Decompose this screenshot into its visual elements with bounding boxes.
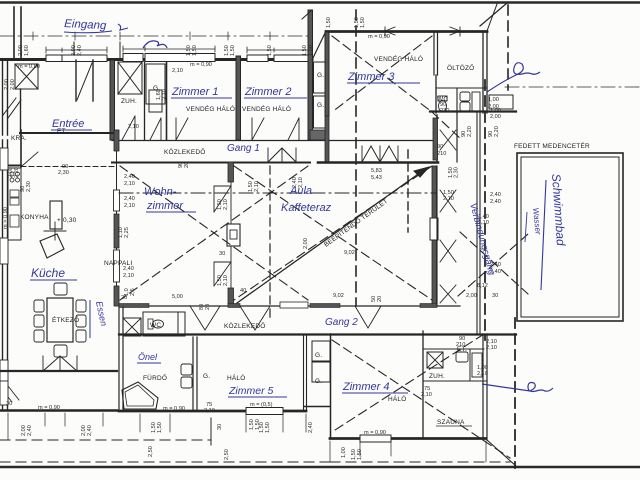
wc block walls: [436, 87, 487, 89]
svg-text:30: 30: [219, 251, 225, 257]
svg-text:Zimmer 1: Zimmer 1: [171, 86, 218, 98]
svg-text:G.: G.: [203, 373, 210, 380]
svg-text:WC: WC: [150, 322, 161, 329]
door swings corridor row: [122, 116, 135, 140]
chairs: [34, 300, 44, 312]
dim 80/20: [199, 304, 211, 310]
closets column x312-330: [312, 341, 330, 361]
svg-text:KÖZLEKEDŐ: KÖZLEKEDŐ: [164, 147, 206, 156]
svg-text:1,50: 1,50: [192, 45, 198, 56]
svg-text:2,10: 2,10: [124, 181, 135, 187]
window bracket: [385, 31, 460, 33]
dim 1,50 c: [267, 45, 273, 56]
french door M étkező: [43, 356, 77, 371]
svg-text:2,00: 2,00: [466, 293, 477, 299]
corridor top wall y140: [112, 140, 437, 142]
svg-text:2,30: 2,30: [58, 170, 69, 176]
svg-text:2,25: 2,25: [124, 227, 130, 238]
svg-text:m = (0,5): m = (0,5): [250, 402, 273, 408]
hatched wall block below closets: [310, 130, 327, 140]
dim 1,50/1,50 z3: [354, 17, 366, 28]
wc toilet: [438, 96, 447, 101]
window zimmer4: [360, 435, 391, 442]
et basin: [456, 352, 468, 362]
closet column south wall: [304, 406, 330, 408]
big dashed X bottom right: [332, 334, 510, 458]
svg-text:FEDETT MEDENCETÉR: FEDETT MEDENCETÉR: [514, 141, 590, 150]
window bracket lines above: [46, 47, 107, 53]
svg-text:5,83: 5,83: [371, 168, 382, 174]
svg-text:KÖZLEKEDŐ: KÖZLEKEDŐ: [224, 321, 266, 330]
zimmer5 closet wall x305: [304, 334, 307, 411]
svg-text:VENDÉG HÁLÓ: VENDÉG HÁLÓ: [374, 54, 423, 63]
svg-text:Küche: Küche: [31, 266, 65, 280]
kitchen counter left: [8, 168, 21, 240]
svg-text:2,40: 2,40: [124, 196, 135, 202]
axis dashdot y193: [119, 192, 437, 194]
door swing KRA: [22, 152, 38, 166]
dim 90/230 kitchen: [20, 181, 32, 192]
corridor2 top wall y306: [119, 305, 460, 307]
dim 1,50/2,10 spine: [248, 181, 260, 192]
dim 1,50/1,50 z2: [302, 45, 314, 56]
basins öltöző: [460, 92, 470, 101]
dim 1,50/1,50 b: [224, 45, 236, 56]
wall KRA east: [20, 130, 22, 167]
dim 1,50/2,10 spine a: [217, 199, 229, 210]
dim 90/220 b: [488, 126, 500, 137]
vanity row: [143, 312, 178, 336]
dashed X aula: [234, 166, 432, 300]
spine door swings: [214, 186, 231, 212]
svg-text:Aula: Aula: [289, 185, 312, 197]
svg-text:Entrée: Entrée: [52, 118, 84, 130]
svg-text:2,10: 2,10: [486, 345, 497, 351]
svg-text:90: 90: [437, 144, 443, 150]
closets east of zimmer2: [314, 62, 328, 93]
wall zuh/G divider: [144, 62, 146, 140]
left exterior wall: [3, 140, 8, 410]
center dashdot line top: [0, 35, 312, 37]
diagonal bottom right corner solid: [487, 440, 516, 466]
ticks on dashdot: [33, 32, 270, 40]
svg-text:2,40: 2,40: [77, 45, 83, 56]
svg-text:2,30: 2,30: [454, 167, 460, 178]
porch posts top-left: [14, 7, 21, 59]
corner bathtub: [122, 382, 158, 409]
dim bottom row: [21, 425, 33, 436]
dim 2,00 spine vert: [303, 238, 309, 249]
dashed X zimmer3: [332, 36, 432, 112]
kitchen north dashed counter line: [21, 166, 115, 168]
svg-text:2,30: 2,30: [26, 181, 32, 192]
arrow BEÉPÍTENDŐ: [237, 169, 426, 304]
svg-text:KONYHA: KONYHA: [20, 214, 49, 221]
svg-text:2,5: 2,5: [130, 288, 136, 296]
svg-text:30: 30: [6, 401, 12, 407]
dim 2,00/1,60: [18, 45, 30, 56]
svg-text:2,10: 2,10: [162, 89, 168, 100]
bottom wall B y438: [330, 437, 486, 440]
living west wall x116 segments: [116, 130, 118, 306]
dashed vertical x515 bottom: [514, 318, 516, 468]
wall left exterior: [3, 59, 8, 135]
wall entrée/zimmer1 hatched: [110, 60, 115, 140]
svg-text:230: 230: [440, 108, 449, 114]
south wall of block y111: [430, 110, 516, 112]
svg-text:VENDÉG HÁLÓ: VENDÉG HÁLÓ: [242, 104, 291, 113]
svg-text:ZUH.: ZUH.: [429, 373, 445, 380]
dim 90/20 corridor: [178, 162, 190, 168]
svg-text:FÜRDŐ: FÜRDŐ: [143, 373, 167, 382]
svg-text:8,12: 8,12: [477, 283, 488, 289]
svg-text:ET.: ET.: [457, 346, 467, 353]
kitchen bench slanted: [40, 234, 64, 258]
svg-text:1,00: 1,00: [488, 97, 499, 103]
dim 1,50/1,50 a: [186, 45, 198, 56]
svg-text:2,00: 2,00: [303, 238, 309, 249]
window zimmer2: [247, 55, 268, 62]
window zimmer5: [246, 408, 283, 415]
svg-text:G.: G.: [315, 352, 322, 359]
svg-text:2,10: 2,10: [223, 199, 229, 210]
svg-text:2,10: 2,10: [223, 275, 229, 286]
svg-text:G.: G.: [317, 72, 324, 79]
svg-text:2,40: 2,40: [308, 422, 314, 433]
svg-text:2,10: 2,10: [128, 124, 139, 130]
terrace door marks: [1, 386, 19, 402]
svg-text:Önel: Önel: [138, 352, 158, 362]
svg-text:2,50: 2,50: [224, 449, 230, 460]
svg-text:Gang 1: Gang 1: [227, 143, 260, 154]
svg-text:2,10: 2,10: [123, 273, 134, 279]
double door M aula: [362, 146, 398, 162]
dim 2,00/2,20 left2: [8, 167, 20, 178]
vertical corridor walls: [436, 115, 438, 162]
svg-text:2,50: 2,50: [148, 446, 154, 457]
svg-text:+ 0,30: + 0,30: [57, 217, 77, 224]
svg-text:1,00: 1,00: [341, 447, 347, 458]
svg-text:40: 40: [240, 288, 246, 294]
dim 1,60/2,10: [156, 89, 168, 100]
window boxes on left wall: [0, 148, 8, 170]
note Ju top-right: [487, 63, 540, 92]
dim 1,10/2,25: [118, 227, 130, 238]
dashed X upper right of building: [458, 232, 528, 296]
axis dashed vertical x270: [269, 166, 271, 320]
svg-text:Eingang: Eingang: [64, 18, 107, 32]
wall zimmer1/zimmer2 hatched: [236, 56, 241, 140]
svg-text:1,50: 1,50: [230, 45, 236, 56]
dim 1,50 z3 top: [326, 17, 332, 28]
frame bottom: [0, 466, 640, 469]
svg-text:Zimmer 4: Zimmer 4: [342, 381, 389, 393]
entrance door: [76, 60, 93, 101]
svg-text:ÉTKEZŐ: ÉTKEZŐ: [52, 315, 79, 324]
svg-text:1,60: 1,60: [24, 45, 30, 56]
dim 2,50 left low: [148, 446, 154, 457]
wall under entrée y134: [20, 132, 117, 134]
svg-text:2,20: 2,20: [467, 126, 473, 137]
shower X-box: [427, 352, 443, 368]
svg-text:2,20: 2,20: [494, 126, 500, 137]
dim 2,00/2,40: [71, 45, 83, 56]
left wall: [325, 32, 329, 116]
corridor2 window boxes in top wall: [280, 302, 308, 308]
living room top wall y162: [112, 162, 310, 164]
dining table: [47, 298, 73, 342]
öltöző divider: [434, 32, 438, 75]
svg-text:9,02: 9,02: [344, 250, 355, 256]
svg-text:1,50: 1,50: [255, 419, 261, 430]
double door M left living: [268, 148, 296, 162]
top exterior wall: [0, 58, 312, 61]
svg-text:KRA.: KRA.: [11, 135, 27, 142]
svg-text:2,10: 2,10: [477, 371, 488, 377]
dim m=090 left vertical: [3, 207, 9, 229]
étkező south wall y371: [0, 370, 117, 372]
svg-text:G.: G.: [315, 378, 322, 385]
shower block top wall: [423, 348, 484, 350]
svg-text:Gang 2: Gang 2: [325, 317, 358, 328]
outdoor step boxes right: [489, 95, 513, 109]
svg-text:2,40: 2,40: [87, 425, 93, 436]
chamfer corner right: [480, 3, 507, 26]
shower block bottom wall: [423, 380, 487, 382]
svg-text:m = 0,80: m = 0,80: [18, 64, 40, 70]
wall KRA right: [20, 89, 22, 135]
stove circles: [10, 172, 14, 176]
pool outer rect: [517, 153, 623, 321]
svg-text:2,10: 2,10: [172, 68, 183, 74]
svg-text:2,40: 2,40: [490, 199, 501, 205]
wall zimmer2 right / long spine x310: [308, 10, 313, 140]
note JH squiggle: [143, 41, 167, 48]
svg-text:m = 0,90: m = 0,90: [38, 405, 60, 411]
axis dashed vertical x356: [355, 10, 357, 306]
frame top: [0, 1, 640, 3]
svg-text:2,10: 2,10: [124, 203, 135, 209]
svg-text:20: 20: [205, 304, 211, 310]
dim 2,40/2,10 nappali low: [124, 288, 136, 296]
svg-text:2,40: 2,40: [124, 174, 135, 180]
svg-text:m = 0,90: m = 0,90: [163, 406, 185, 412]
dim 2,00/2,00 left: [4, 79, 16, 90]
terrace south wall y410: [0, 409, 117, 411]
east wall lower x484: [483, 334, 487, 440]
right wall: [483, 32, 487, 113]
door diagonals left wall: [3, 98, 21, 118]
shower X-box bath: [123, 318, 141, 336]
svg-text:1,50: 1,50: [157, 422, 163, 433]
svg-text:HÁLÓ: HÁLÓ: [227, 373, 246, 382]
svg-text:2,40: 2,40: [27, 425, 33, 436]
door triangles corridor2: [190, 306, 220, 330]
pool inner rect: [521, 157, 619, 317]
aula top wall y162 right part with double door: [318, 161, 438, 164]
top wall right section: [326, 30, 487, 33]
dashed vertical right x508: [507, 5, 509, 90]
svg-text:2,40: 2,40: [490, 192, 501, 198]
kitchen island: [50, 201, 62, 229]
svg-text:Zimmer 5: Zimmer 5: [228, 385, 273, 397]
dim 90/20 c2: [371, 296, 383, 302]
svg-text:30: 30: [492, 293, 498, 299]
svg-text:1,50: 1,50: [265, 422, 271, 433]
bottom wall A y411: [119, 410, 306, 413]
svg-text:2,10: 2,10: [204, 408, 215, 414]
shower ZUH X-box: [118, 62, 142, 94]
sauna west wall x423: [422, 331, 424, 438]
svg-text:Wohn-: Wohn-: [144, 186, 177, 198]
wall KRA south: [0, 165, 21, 167]
svg-text:20: 20: [377, 296, 383, 302]
svg-text:m = 0,90: m = 0,90: [190, 62, 212, 68]
svg-text:Zimmer 3: Zimmer 3: [347, 71, 395, 83]
svg-text:m = 0,90: m = 0,90: [3, 207, 9, 229]
dim 1,50/2,10 spine b: [217, 275, 229, 286]
center spine x231: [230, 166, 232, 306]
svg-text:Kaffeteraz: Kaffeteraz: [281, 202, 332, 214]
sink: [10, 190, 19, 197]
svg-text:2,10: 2,10: [421, 392, 432, 398]
note Ju bottom-right: [482, 383, 553, 392]
dim 90/220 a: [461, 126, 473, 137]
svg-text:SZAUNA: SZAUNA: [437, 419, 465, 426]
svg-text:9,02: 9,02: [333, 293, 344, 299]
svg-text:30: 30: [217, 424, 223, 430]
basins right wall of bath: [181, 364, 192, 375]
svg-text:2,10: 2,10: [443, 196, 454, 202]
bath east wall x195: [193, 337, 197, 411]
svg-text:Zimmer 2: Zimmer 2: [244, 86, 291, 98]
svg-text:1,50: 1,50: [267, 45, 273, 56]
svg-text:ÖLTÖZŐ: ÖLTÖZŐ: [447, 63, 474, 72]
closet G box: [146, 64, 165, 104]
svg-text:VENDÉG HÁLÓ: VENDÉG HÁLÓ: [186, 104, 235, 113]
svg-text:m = 0,90: m = 0,90: [368, 34, 390, 40]
svg-text:20: 20: [184, 162, 190, 168]
corridor2 bottom wall y334: [119, 333, 516, 335]
svg-text:1,50: 1,50: [357, 449, 363, 460]
svg-text:1,50: 1,50: [308, 45, 314, 56]
svg-text:G.: G.: [317, 102, 324, 109]
window top-left A: [46, 55, 62, 62]
svg-text:210: 210: [437, 151, 446, 157]
svg-text:1,50: 1,50: [360, 17, 366, 28]
bath west wall: [119, 307, 123, 411]
east wall x435: [432, 166, 437, 218]
dim 1,00 z4: [341, 447, 347, 458]
chamfer corner left: [312, 31, 326, 60]
dim 1,50/2,30 east aula2: [448, 167, 460, 178]
svg-text:HÁLÓ: HÁLÓ: [388, 394, 407, 403]
dashed horizontals bottom left: [0, 439, 211, 441]
svg-text:1,50: 1,50: [326, 17, 332, 28]
dimension chain ticks bottom: [8, 413, 306, 440]
wc bath: [148, 319, 153, 329]
dim 2,40 2,10 right of napp: [292, 177, 304, 188]
svg-text:zimmer: zimmer: [146, 200, 184, 212]
axis dashed vertical x408: [407, 150, 409, 232]
svg-text:2,00: 2,00: [10, 79, 16, 90]
cupboard X-box top-left: [15, 64, 38, 89]
center dashdot line right: [505, 86, 640, 88]
svg-text:m = 0,90: m = 0,90: [364, 430, 386, 436]
svg-text:5,43: 5,43: [371, 175, 382, 181]
big dashed X living: [120, 166, 308, 300]
svg-text:2,20: 2,20: [14, 167, 20, 178]
verbindungsgang east dashed bold: [484, 80, 486, 340]
dim 1,50/1,50 z5win: [249, 419, 261, 430]
terrace window left: [0, 381, 8, 405]
door/window symbols along east wall of building: [436, 166, 438, 306]
svg-text:2,40: 2,40: [123, 266, 134, 272]
svg-text:5,00: 5,00: [172, 294, 183, 300]
svg-text:ZUH.: ZUH.: [121, 98, 137, 105]
svg-text:2,00: 2,00: [490, 114, 501, 120]
window sill band x123-215: [123, 54, 143, 62]
svg-text:2,10: 2,10: [254, 181, 260, 192]
